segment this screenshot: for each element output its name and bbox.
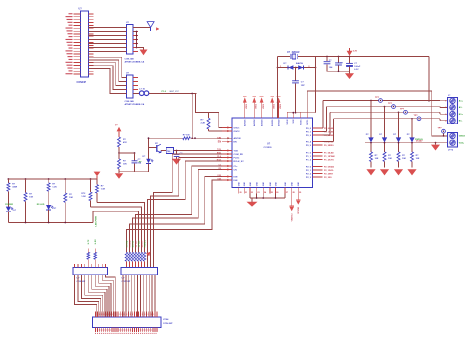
svg-text:RF-LED: RF-LED [37,204,45,206]
svg-text:GND: GND [292,181,294,186]
wire staircase U1 to U3 [89,57,127,93]
resistor R led4 10K [64,179,74,223]
svg-text:CON-14B: CON-14B [125,57,135,60]
svg-text:GND: GND [275,181,277,186]
svg-text:/ANT_VCC: /ANT_VCC [170,90,180,93]
resistor R led2 10K [24,179,34,223]
svg-text:10K: 10K [388,158,392,160]
svg-text:10K: 10K [416,158,420,160]
power flag on rail [347,48,358,56]
svg-text:AVDD1: AVDD1 [244,119,247,126]
svg-text:3: 3 [445,114,446,116]
ground diode column 3 [394,169,403,175]
wire fan 7 [127,180,223,252]
svg-text:29: 29 [299,192,301,194]
svg-text:P0_2: P0_2 [306,135,312,137]
svg-text:AVDD3: AVDD3 [261,120,264,126]
wire LED bottom bus [8,222,93,224]
svg-text:H-TXD: H-TXD [126,240,128,247]
svg-text:10K: 10K [29,196,33,198]
resistor R13 10K [411,143,420,168]
svg-text:B1+: B1+ [459,114,464,116]
svg-text:TCK: TCK [234,150,239,152]
power arrow XCVDD under IC [296,194,301,214]
wire bundle tails [148,252,154,267]
resistor R array 3 [131,240,134,267]
svg-text:PWM-1: PWM-1 [144,239,146,247]
svg-text:21: 21 [245,192,247,194]
svg-text:XI32: XI32 [293,120,295,124]
wire diode bus DC-OUT [365,139,448,143]
wire fan 1 [154,154,223,252]
svg-text:C1+: C1+ [234,166,239,168]
svg-text:GND: GND [285,181,287,186]
diode D3 [393,112,401,142]
connector P5 CON-26P [93,317,174,328]
svg-text:2: 2 [445,107,446,109]
wire crystal left vertical [277,57,279,119]
test point TP2 [388,103,395,109]
svg-text:VDD3: VDD3 [256,104,258,109]
svg-text:DCPL: DCPL [307,119,309,125]
wire LED top bus [7,178,97,180]
wire fan 4 [136,166,223,252]
wire regulator rail [148,137,232,139]
wire fan 5 [133,170,223,253]
power arrow above R divider [115,124,121,137]
wire net OUT3 [323,111,448,135]
capacitor C reg out [174,151,183,159]
wire U2 tie and junctions [133,31,144,50]
wire led net 1 [97,202,145,252]
svg-text:TP?: TP? [375,97,380,99]
svg-text:B1-: B1- [459,121,463,123]
wire rect4 to bottom connector [123,275,155,317]
svg-text:P1_0: P1_0 [306,152,312,154]
wire net OUT2 [323,106,448,132]
resistor R led5 1.5K [81,179,92,207]
resistor R11 10K [383,143,392,168]
resistor Ra 47K [118,137,128,153]
svg-text:OSC2: OSC2 [234,131,241,133]
terminal block J1 4pin [445,95,463,124]
svg-text:GND: GND [270,181,272,186]
svg-text:P1_2/CTS: P1_2/CTS [324,159,334,161]
ground under IC [247,198,258,207]
diode pair D BAV99 [277,62,317,70]
U1 left pin net labels [66,13,73,74]
IC left pins [217,126,244,181]
svg-text:P1_2: P1_2 [306,159,312,161]
svg-text:PLSC: PLSC [234,157,240,159]
svg-text:GPIO1: GPIO1 [135,240,137,247]
svg-text:VDD3: VDD3 [246,104,248,109]
wire caps bottom tie [327,70,350,72]
resistor R rail 100R [182,135,190,140]
svg-text:22: 22 [251,192,253,194]
wire down to regulator rail [191,94,193,139]
svg-text:A1-: A1- [459,106,463,109]
antenna E1 [133,22,159,32]
svg-text:1.5K: 1.5K [81,196,86,198]
capacitor C9 electrolytic [346,57,361,72]
svg-text:GND: GND [257,181,259,186]
P5 bottom pins [95,328,158,334]
IC top pins [244,112,310,126]
test point TP5 [438,128,446,137]
wire IC bottom tie [250,194,285,199]
svg-text:10K: 10K [375,158,379,160]
wire IC decoupling tie [287,112,315,114]
svg-text:XOSC: XOSC [301,119,303,125]
P5 top pin labels [95,312,158,318]
wire ANT_VCC [149,90,197,94]
svg-text:GPIO2: GPIO2 [138,240,140,247]
svg-text:1.2K: 1.2K [52,187,57,189]
svg-text:CC2530: CC2530 [264,147,273,149]
svg-text:POWER: POWER [5,204,13,206]
svg-text:CON-26P: CON-26P [163,323,173,325]
wire net OUT4 [323,118,448,142]
ground diode column 4 [407,169,416,175]
svg-text:OSC1: OSC1 [234,127,241,129]
svg-text:IGN: IGN [234,180,238,182]
svg-text:U?04: U?04 [163,318,169,321]
wire to oscillator resistor [195,94,208,113]
resistor R led1 330R [7,179,18,207]
wire bus U1 to U2 [89,28,127,52]
wire led net 2 [91,207,142,252]
svg-text:10K: 10K [123,164,127,166]
regulator block U reg [161,148,174,154]
IC right pins [306,127,335,179]
svg-text:15P: 15P [301,85,305,87]
svg-text:VDD3: VDD3 [263,104,265,109]
power arrow VBAT under IC [289,194,294,222]
wire crystal right vertical [315,57,317,113]
svg-text:P0_0/AN0: P0_0/AN0 [324,127,334,130]
node divider junction [118,152,120,154]
wire rect3 staircase [75,275,116,317]
svg-text:CON24P: CON24P [77,81,87,84]
svg-text:JT?2: JT?2 [448,150,454,152]
svg-text:LED-PWM: LED-PWM [96,216,98,227]
svg-text:H-RX: H-RX [95,239,97,244]
resistor R array 5 [137,240,140,268]
resistor R12 10K [397,143,406,168]
diode D2 [379,107,387,143]
svg-text:RCLK_SY: RCLK_SY [234,161,245,163]
test point TP4 [414,115,421,121]
svg-text:VBAT3.3: VBAT3.3 [291,214,294,222]
connector U2 CON-14B [122,22,145,64]
svg-text:6.3V: 6.3V [354,69,359,71]
svg-text:P2_2/INT: P2_2/INT [324,173,334,175]
svg-text:P1_1: P1_1 [306,156,312,158]
capacitor C8 [335,57,344,72]
svg-text:P0_1: P0_1 [306,131,312,133]
svg-text:U?: U? [79,8,83,11]
net label DC-IN [415,139,423,141]
svg-text:25: 25 [271,192,273,194]
ground near terminal J2 [431,143,440,151]
svg-text:EN: EN [218,142,222,144]
svg-text:1.5K: 1.5K [101,189,106,191]
svg-text:U?: U? [267,143,271,146]
svg-text:X?_32KHZ: X?_32KHZ [287,51,300,54]
svg-text:R? 100: R? 100 [183,135,191,137]
LED D power [5,204,17,222]
capacitor C osc [292,68,305,113]
crystal X1 32KHZ [278,51,316,59]
connector U1 CON24P [74,8,94,85]
jumper Z1 [87,239,90,268]
svg-text:28: 28 [293,192,295,194]
jumper Z2 [94,239,97,268]
svg-text:GND2: GND2 [459,136,466,138]
svg-text:DVDD1: DVDD1 [272,119,274,126]
svg-text:PWR-IN: PWR-IN [415,139,423,141]
resistor R led6 1.5K [96,179,106,202]
wire fan 3 [148,161,223,252]
svg-text:GND: GND [250,181,252,186]
wire fan 6 [130,177,223,253]
svg-text:ATNET-ZIGBEE-CA: ATNET-ZIGBEE-CA [125,61,145,64]
svg-text:AVDD2: AVDD2 [253,120,256,126]
resistor Rb 10K [118,153,128,172]
svg-text:P1.0: P1.0 [162,91,167,93]
svg-text:TP?: TP? [388,103,393,105]
svg-text:H-RXD: H-RXD [129,240,131,247]
svg-text:ATNET-ZIGBEE-CA: ATNET-ZIGBEE-CA [125,103,145,106]
wire regulator output [174,150,222,152]
svg-text:P2_0: P2_0 [306,166,312,168]
svg-text:3.3V: 3.3V [353,51,358,53]
svg-text:XO32: XO32 [287,120,289,125]
svg-text:23: 23 [257,192,259,194]
svg-text:10K: 10K [69,197,73,199]
power arrow bundle [146,250,152,256]
svg-text:ADC-0: ADC-0 [140,240,143,247]
svg-text:CN: CN [234,169,238,171]
test point TP1 [375,97,382,103]
svg-text:ADCIN: ADCIN [234,137,241,140]
svg-text:20: 20 [240,192,242,194]
svg-text:ION: ION [234,176,238,178]
net label LED-PWM [96,216,98,227]
svg-text:V24+: V24+ [459,141,465,144]
svg-text:GND: GND [244,181,246,186]
resistor R array 4 [134,240,137,268]
test point TP3 [400,109,407,115]
resistor R array 1 [125,240,128,267]
resistor R array 7 [143,239,146,267]
inductor L1 [133,89,149,96]
capacitor C7 [324,57,334,72]
svg-text:10K: 10K [402,158,406,160]
connector U3 CON-14B [122,73,145,107]
wire top net to terminal [307,91,447,136]
svg-text:P1_0/LED: P1_0/LED [324,152,334,154]
svg-text:P1_1/PWM: P1_1/PWM [324,156,335,158]
resistor R10 10K [370,143,379,168]
ground divider [115,172,149,179]
ground caps [345,71,354,79]
svg-text:GND: GND [263,181,265,186]
svg-text:DVDD2: DVDD2 [278,120,280,127]
svg-text:330R: 330R [12,187,17,189]
transistor B1 [149,143,162,153]
svg-text:VDD3: VDD3 [274,104,276,109]
svg-text:XCVDD: XCVDD [298,206,300,213]
wire osc branch to OSC pin [209,112,233,127]
svg-text:A1+: A1+ [459,100,464,103]
svg-text:CON-14B: CON-14B [125,100,135,103]
svg-text:RST-N: RST-N [132,240,134,247]
svg-text:P0_4: P0_4 [306,140,312,143]
svg-text:100uF: 100uF [354,66,361,68]
resistor R array 6 [140,240,143,268]
svg-text:TP?: TP? [438,128,443,130]
IC U5 CC2530 [232,118,313,188]
svg-text:TP?: TP? [414,115,419,117]
svg-text:P0_0: P0_0 [306,128,312,130]
wire led net 3 [93,211,139,252]
wire divider to cap [119,152,135,154]
svg-text:TP?: TP? [400,109,405,111]
svg-text:P0_5/RX0: P0_5/RX0 [324,145,334,147]
svg-text:P2_0/SDA: P2_0/SDA [324,165,334,168]
wire power rail [316,56,430,102]
svg-text:GND: GND [298,181,300,186]
terminal block J2 2pin [448,132,466,151]
ground regulator [172,159,181,165]
svg-text:P2_1/SCL: P2_1/SCL [324,170,334,172]
LED D rf [139,138,154,172]
svg-text:47K: 47K [123,141,127,144]
svg-text:P0_5: P0_5 [306,145,312,147]
power arrows above IC [243,97,282,112]
svg-text:P2_1: P2_1 [306,170,312,172]
ground diode column 2 [380,169,389,175]
ground diode column 1 [366,169,375,175]
svg-text:27: 27 [286,192,288,194]
capacitor C divider [132,153,142,172]
resistor R array 2 [128,240,131,268]
svg-text:26: 26 [276,192,278,194]
diode D1 [366,101,374,143]
wire fan 2 [151,158,223,253]
connector P3 CON10P [73,264,108,283]
svg-text:L? 10: L? 10 [139,89,145,91]
svg-text:EN: EN [234,142,237,144]
wire net OUT1 [323,100,448,128]
svg-text:P2_3: P2_3 [306,177,312,179]
resistor R osc [201,112,233,131]
power flag LED bus [94,172,101,179]
ground near U2 [140,50,148,56]
svg-text:H-TX: H-TX [88,239,90,244]
svg-text:2.2K: 2.2K [201,123,206,125]
svg-text:P2_2: P2_2 [306,173,312,175]
svg-text:GND: GND [239,181,241,186]
IC bottom pins [239,181,302,193]
svg-text:P2_3/IO: P2_3/IO [324,177,332,179]
LED D rf2 [37,204,57,223]
svg-text:COM_RX: COM_RX [234,154,244,156]
connector P4 CON12P [121,268,158,284]
resistor R led3 1K [47,179,57,205]
svg-text:BAV99: BAV99 [296,62,304,65]
diode D4 [407,119,415,143]
svg-text:VDD3: VDD3 [280,104,282,109]
